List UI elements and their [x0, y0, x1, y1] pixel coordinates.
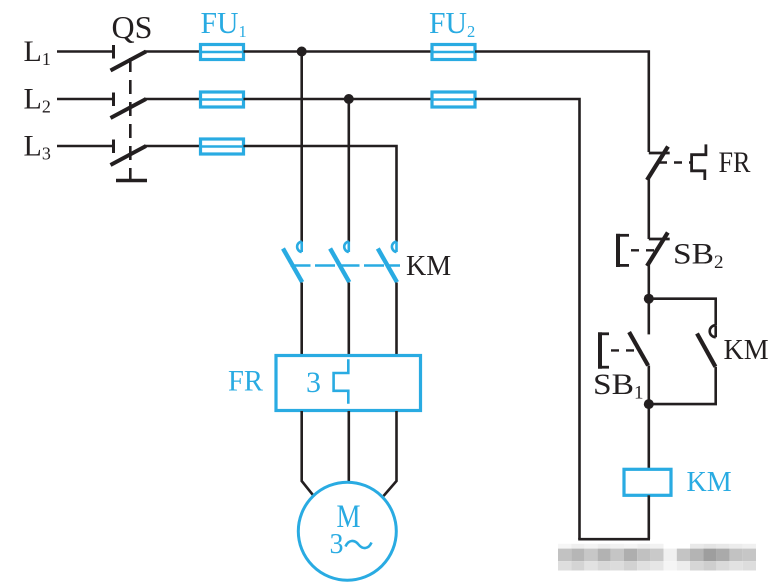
fuse FU1 pole 1: [201, 45, 244, 60]
fuse FU2 pole 2: [432, 92, 475, 107]
button SB2 (NC stop): [616, 233, 670, 268]
svg-text:FR: FR: [719, 146, 751, 179]
node junction L1: [297, 47, 307, 57]
wire node B to coil: [647, 404, 650, 468]
wire coil to bottom rail: [647, 495, 650, 539]
switch QS linkage: [116, 58, 147, 181]
wire FR box to motor middle: [347, 411, 350, 483]
fuse FU1 pole 3: [201, 139, 244, 154]
contact KM auxiliary (NO): [697, 325, 716, 367]
motor M circle: [298, 482, 396, 580]
coil KM box: [624, 469, 671, 495]
wire FU2 row2 to left control rail: [475, 99, 580, 539]
contactor KM main pole 3: [378, 242, 397, 283]
contactor KM linkage dashes: [291, 264, 401, 267]
svg-text:QS: QS: [112, 9, 153, 45]
wire L1 to QS: [57, 50, 112, 53]
svg-text:3: 3: [330, 529, 344, 560]
wire SB2 to node A: [647, 265, 650, 299]
svg-text:KM: KM: [687, 467, 732, 498]
wire FR box to motor right: [384, 411, 397, 496]
node A junction: [644, 294, 654, 304]
svg-text:FR: FR: [228, 365, 263, 398]
svg-text:KM: KM: [406, 251, 451, 282]
wire pole1 to FR box: [300, 283, 303, 356]
contactor KM main pole 1: [283, 242, 302, 283]
wire pole2 to FR box: [347, 283, 350, 356]
fuse FU2 pole 1: [432, 45, 475, 60]
wire L2 to QS: [57, 98, 112, 101]
watermark mosaic: [558, 544, 756, 571]
relay contact FR (NC): [647, 144, 706, 180]
switch QS pole 2: [111, 93, 147, 119]
wire L2 drop: [347, 99, 350, 242]
wire L3 to QS: [57, 145, 112, 148]
node junction L2: [344, 94, 354, 104]
wire branch bottom: [649, 367, 716, 404]
wire QS to FU1 row2: [144, 98, 200, 101]
wire FU1 row3 to corner: [244, 146, 397, 242]
wire branch top: [649, 299, 716, 325]
button SB1 (NO start): [598, 332, 648, 369]
wire L1 drop: [300, 52, 303, 242]
switch QS pole 3: [111, 140, 147, 166]
wire QS to FU1 row1: [144, 50, 200, 53]
wire FR box to motor left: [302, 411, 313, 495]
switch QS pole 1: [111, 45, 147, 71]
wire node A to SB1: [647, 299, 650, 335]
wire FU1 to FU2 row1: [244, 50, 432, 53]
wire bottom rail: [578, 538, 650, 541]
overload relay FR box: [276, 356, 421, 411]
wire FU1 to FU2 row2: [244, 98, 432, 101]
svg-text:3: 3: [306, 366, 321, 399]
wire FR to SB2: [647, 179, 650, 239]
overload relay heater element: [334, 359, 349, 404]
contactor KM main pole 2: [330, 242, 349, 283]
wire QS to FU1 row3: [144, 145, 200, 148]
fuse FU1 pole 2: [201, 92, 244, 107]
wire SB1 to node B: [647, 366, 650, 405]
node B junction: [644, 399, 654, 409]
wire FU2 row1 to right corner: [475, 52, 649, 153]
wire pole3 to FR box: [395, 283, 398, 356]
svg-text:KM: KM: [724, 335, 769, 366]
